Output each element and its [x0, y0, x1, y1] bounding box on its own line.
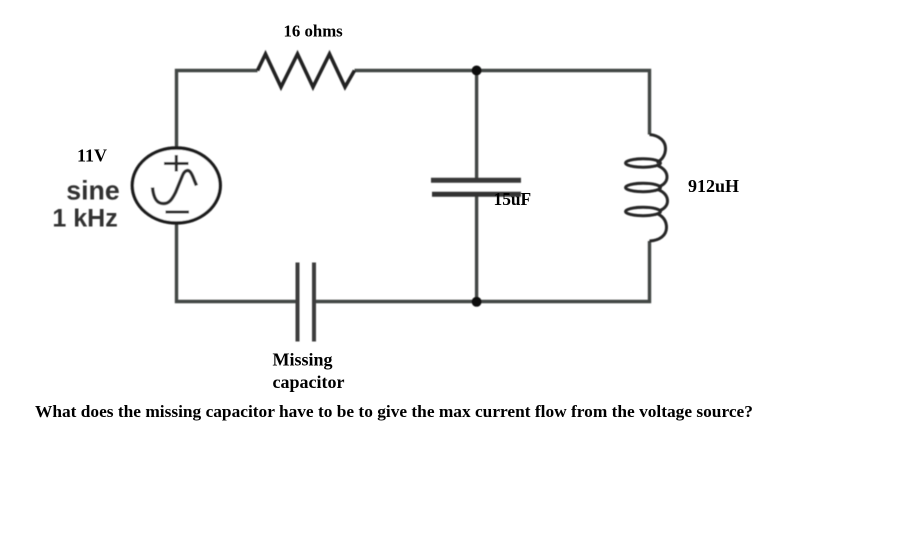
svg-text:11V: 11V	[77, 146, 107, 166]
svg-text:16 ohms: 16 ohms	[284, 22, 344, 41]
svg-text:capacitor: capacitor	[273, 372, 345, 392]
svg-text:1 kHz: 1 kHz	[52, 204, 117, 232]
svg-text:912uH: 912uH	[688, 176, 739, 196]
svg-text:What does the missing capacito: What does the missing capacitor have to …	[35, 402, 753, 421]
svg-text:Missing: Missing	[273, 350, 333, 370]
svg-text:15uF: 15uF	[494, 189, 532, 209]
svg-text:sine: sine	[66, 176, 119, 206]
